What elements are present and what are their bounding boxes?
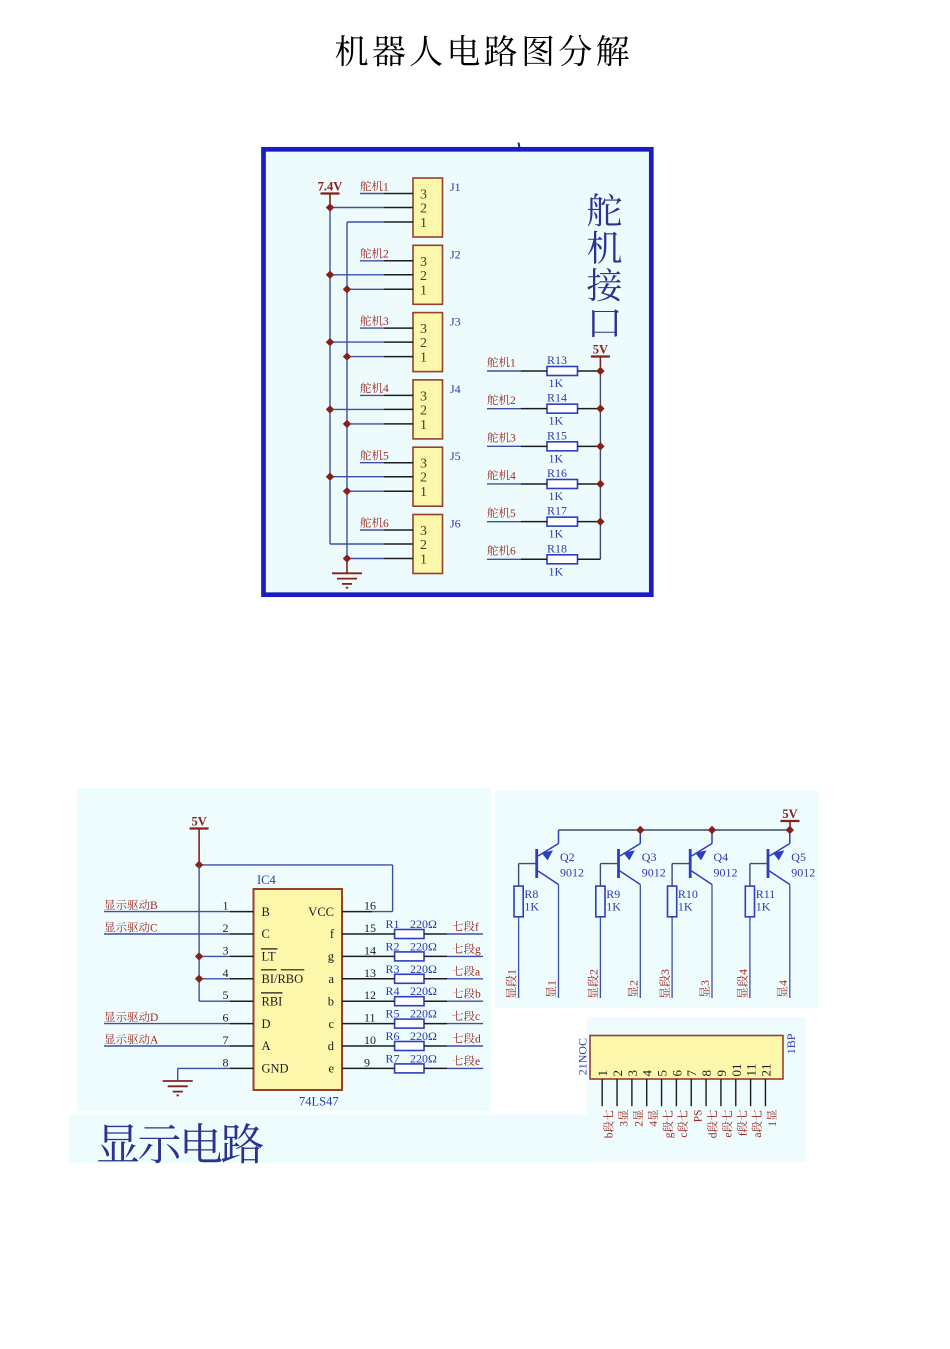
svg-text:1: 1 bbox=[420, 418, 427, 433]
svg-text:9012: 9012 bbox=[642, 866, 666, 880]
svg-text:GND: GND bbox=[262, 1062, 289, 1076]
label 显段2 bbox=[586, 969, 600, 998]
label 显示驱动C bbox=[105, 922, 158, 935]
wire rail to J2 pin2 bbox=[330, 274, 384, 276]
wire LT bbox=[199, 955, 230, 957]
label 舵机2 (net) bbox=[487, 394, 516, 407]
label R17 bbox=[547, 504, 567, 518]
svg-text:1: 1 bbox=[576, 1063, 590, 1069]
junction J2 pin2 bbox=[326, 271, 334, 279]
transistor Q5 bbox=[768, 830, 790, 885]
junction R13 rail bbox=[596, 367, 604, 375]
resistor R11 bbox=[745, 886, 754, 917]
IC4 pin stubs bbox=[230, 912, 372, 1069]
junction Q5 emitter bbox=[786, 826, 794, 834]
svg-text:Q2: Q2 bbox=[560, 850, 575, 864]
wire 七段g bbox=[447, 955, 483, 957]
junction BI/RBO bbox=[195, 975, 203, 983]
svg-text:S: S bbox=[693, 1109, 705, 1115]
svg-text:6: 6 bbox=[223, 1011, 229, 1025]
svg-text:1K: 1K bbox=[524, 900, 539, 914]
label 七段b bbox=[452, 988, 481, 1001]
svg-text:J4: J4 bbox=[450, 382, 461, 396]
label 显示驱动A bbox=[105, 1034, 159, 1047]
label 220Ω (R3) bbox=[410, 962, 437, 976]
label 七段e (PB1 pin 9) bbox=[722, 1110, 735, 1138]
power 7.4V bbox=[318, 180, 343, 194]
svg-text:BI/RBO: BI/RBO bbox=[262, 972, 304, 986]
svg-text:d: d bbox=[475, 1034, 481, 1046]
svg-text:3: 3 bbox=[420, 255, 427, 270]
svg-text:2: 2 bbox=[420, 269, 427, 284]
wire PB1 pin 11 bbox=[750, 1079, 752, 1106]
label 显示驱动D bbox=[105, 1011, 159, 1024]
svg-text:1: 1 bbox=[729, 1064, 744, 1071]
wire 舵机2 to R14 bbox=[487, 408, 521, 410]
svg-text:3: 3 bbox=[420, 389, 427, 404]
svg-text:1: 1 bbox=[383, 181, 389, 193]
label 1K (R18) bbox=[549, 564, 564, 578]
svg-text:e: e bbox=[475, 1056, 480, 1068]
svg-text:B: B bbox=[150, 900, 158, 912]
wire ground rail (servo) bbox=[346, 222, 348, 559]
label 七段c (PB1 pin 6) bbox=[677, 1110, 690, 1138]
junction R17 rail bbox=[596, 517, 604, 525]
wire 七段c bbox=[447, 1023, 483, 1025]
svg-text:2: 2 bbox=[420, 471, 427, 486]
label 显段1 bbox=[505, 969, 519, 998]
svg-text:1K: 1K bbox=[756, 900, 771, 914]
junction J2 pin1 bbox=[343, 285, 351, 293]
wire collector Q4 bbox=[711, 885, 713, 999]
svg-text:A: A bbox=[150, 1035, 159, 1047]
label 舵机接口 bbox=[587, 193, 621, 337]
wire base Q4 bbox=[672, 864, 690, 887]
connector PB1 body bbox=[590, 1036, 783, 1080]
svg-text:1: 1 bbox=[420, 216, 427, 231]
svg-text:J1: J1 bbox=[450, 180, 461, 194]
wire 七段a bbox=[447, 978, 483, 980]
wire 舵机2 to J2 pin3 bbox=[360, 260, 384, 262]
resistor R6 bbox=[372, 1042, 447, 1051]
svg-text:b: b bbox=[604, 1132, 616, 1138]
svg-text:J5: J5 bbox=[450, 449, 461, 463]
wire base Q3 bbox=[600, 864, 618, 887]
resistor R8 bbox=[514, 886, 523, 917]
svg-text:5: 5 bbox=[510, 508, 516, 520]
svg-text:220Ω: 220Ω bbox=[410, 1051, 437, 1065]
svg-text:Q4: Q4 bbox=[714, 850, 729, 864]
svg-text:VCC: VCC bbox=[308, 905, 334, 919]
wire emitter rail bbox=[559, 829, 791, 831]
junction Q3 emitter bbox=[636, 826, 644, 834]
svg-text:1: 1 bbox=[420, 485, 427, 500]
resistor R15 bbox=[521, 442, 600, 451]
svg-text:1K: 1K bbox=[678, 900, 693, 914]
label J5 bbox=[450, 449, 461, 463]
svg-text:9: 9 bbox=[714, 1070, 729, 1077]
label 显3 bbox=[698, 980, 712, 997]
label 显段4 bbox=[736, 969, 750, 998]
label 1K (R9) bbox=[606, 900, 621, 914]
ground (display) bbox=[163, 1081, 193, 1095]
wire base Q5 bbox=[750, 864, 768, 887]
svg-text:1: 1 bbox=[505, 969, 519, 975]
label J1 bbox=[450, 180, 461, 194]
wire 显段1 bbox=[518, 917, 520, 998]
svg-text:8: 8 bbox=[223, 1055, 229, 1069]
label 220Ω (R6) bbox=[410, 1029, 437, 1043]
svg-text:1: 1 bbox=[784, 1048, 798, 1054]
label 舵机2 (J2) bbox=[360, 248, 389, 261]
svg-text:1: 1 bbox=[545, 980, 559, 986]
wire 7.4V stub bbox=[329, 194, 331, 208]
label 舵机6 (net) bbox=[487, 545, 516, 558]
wire PB1 pin 2 bbox=[616, 1079, 618, 1106]
svg-text:4: 4 bbox=[648, 1121, 660, 1127]
label 显2 bbox=[626, 980, 640, 997]
label 舵机1 (J1) bbox=[360, 181, 389, 194]
svg-text:4: 4 bbox=[383, 383, 389, 395]
label 显2 (PB1 pin 3) bbox=[633, 1110, 645, 1127]
label R8 bbox=[524, 887, 538, 901]
power 5V (servo) bbox=[591, 343, 610, 357]
label 220Ω (R2) bbox=[410, 939, 437, 953]
svg-text:B: B bbox=[262, 905, 270, 919]
svg-text:O: O bbox=[576, 1046, 590, 1055]
label R14 bbox=[547, 391, 567, 405]
svg-text:D: D bbox=[262, 1017, 271, 1031]
label 9012 (Q2) bbox=[560, 866, 584, 880]
svg-text:g: g bbox=[663, 1132, 675, 1138]
wire gnd to J2 pin1 bbox=[347, 288, 384, 290]
svg-text:4: 4 bbox=[510, 470, 516, 482]
label 74LS47 bbox=[299, 1095, 339, 1109]
servo interface frame bbox=[264, 149, 652, 594]
label 七段d bbox=[452, 1033, 481, 1046]
svg-text:e: e bbox=[328, 1062, 334, 1076]
label 舵机6 (J6) bbox=[360, 517, 389, 530]
svg-text:R1: R1 bbox=[386, 917, 400, 931]
wire gnd to J1 pin1 bbox=[347, 221, 384, 223]
svg-text:5: 5 bbox=[383, 451, 389, 463]
svg-text:2: 2 bbox=[420, 336, 427, 351]
wire 5V rail (servo) bbox=[599, 371, 601, 559]
svg-text:R18: R18 bbox=[547, 541, 567, 555]
svg-text:2: 2 bbox=[576, 1069, 590, 1075]
wire PB1 pin 8 bbox=[705, 1079, 707, 1106]
transistor Q3 bbox=[619, 830, 641, 885]
label R10 bbox=[678, 887, 698, 901]
connector J3 bbox=[384, 313, 443, 372]
label 1K (R16) bbox=[549, 489, 564, 503]
svg-text:0: 0 bbox=[729, 1070, 744, 1077]
svg-text:9: 9 bbox=[364, 1055, 370, 1069]
label 七段d (PB1 pin 8) bbox=[707, 1110, 720, 1138]
svg-text:R3: R3 bbox=[386, 962, 400, 976]
svg-text:220Ω: 220Ω bbox=[410, 984, 437, 998]
label 显3 (PB1 pin 2) bbox=[618, 1110, 630, 1127]
label R16 bbox=[547, 466, 567, 480]
svg-text:2: 2 bbox=[420, 538, 427, 553]
wire 七段b bbox=[447, 1000, 483, 1002]
svg-text:2: 2 bbox=[626, 980, 640, 986]
tick mark top border bbox=[519, 143, 520, 149]
label 舵机3 (J3) bbox=[360, 315, 389, 328]
label 1K (R11) bbox=[756, 900, 771, 914]
wire gnd to J4 pin1 bbox=[347, 423, 384, 425]
svg-text:3: 3 bbox=[625, 1070, 640, 1077]
svg-text:1: 1 bbox=[744, 1070, 759, 1077]
svg-text:2: 2 bbox=[610, 1070, 625, 1077]
junction J4 pin1 bbox=[343, 420, 351, 428]
wire PB1 pin 9 bbox=[720, 1079, 722, 1106]
wire 舵机4 to J4 pin3 bbox=[360, 394, 384, 396]
label 显段3 bbox=[658, 969, 672, 998]
label R5 bbox=[386, 1007, 400, 1021]
svg-text:d: d bbox=[328, 1039, 335, 1053]
svg-text:1K: 1K bbox=[549, 564, 564, 578]
wire PB1 pin 3 bbox=[631, 1079, 633, 1106]
svg-text:3: 3 bbox=[510, 433, 516, 445]
junction J5 pin1 bbox=[343, 487, 351, 495]
label Q3 bbox=[642, 850, 657, 864]
wire gnd to J3 pin1 bbox=[347, 356, 384, 358]
svg-text:Q3: Q3 bbox=[642, 850, 657, 864]
label 七段e bbox=[452, 1055, 480, 1068]
svg-text:2: 2 bbox=[420, 403, 427, 418]
label 显4 bbox=[776, 980, 790, 997]
svg-text:J2: J2 bbox=[450, 247, 461, 261]
label 显示电路 bbox=[98, 1123, 263, 1163]
resistor R7 bbox=[372, 1064, 447, 1073]
svg-text:220Ω: 220Ω bbox=[410, 917, 437, 931]
label R6 bbox=[386, 1029, 400, 1043]
wire rail to J4 pin2 bbox=[330, 408, 384, 410]
junction R16 rail bbox=[596, 480, 604, 488]
svg-text:4: 4 bbox=[776, 980, 790, 986]
junction R14 rail bbox=[596, 404, 604, 412]
label 七段a (PB1 pin 11) bbox=[751, 1110, 764, 1138]
svg-text:3: 3 bbox=[619, 1121, 631, 1127]
wire PB1 pin 4 bbox=[646, 1079, 648, 1106]
connector J5 bbox=[384, 447, 443, 506]
svg-text:B: B bbox=[784, 1040, 798, 1048]
wire 舵机3 to R15 bbox=[487, 445, 521, 447]
svg-text:R7: R7 bbox=[386, 1051, 400, 1065]
svg-text:5V: 5V bbox=[782, 807, 797, 821]
wire gnd to J6 pin1 bbox=[347, 558, 384, 560]
resistor R9 bbox=[596, 886, 605, 917]
svg-text:16: 16 bbox=[364, 899, 376, 913]
power 5V (transistors) bbox=[781, 807, 800, 821]
svg-text:a: a bbox=[328, 972, 334, 986]
ground (servo) bbox=[332, 573, 362, 587]
label 七段g bbox=[452, 943, 481, 956]
transistor Q2 bbox=[537, 830, 559, 885]
label 9012 (Q3) bbox=[642, 866, 666, 880]
connector J1 bbox=[384, 178, 443, 237]
label 七段g (PB1 pin 5) bbox=[662, 1110, 675, 1138]
svg-text:9012: 9012 bbox=[714, 866, 738, 880]
wire 显示驱动A bbox=[104, 1045, 230, 1047]
svg-text:4: 4 bbox=[223, 966, 229, 980]
wire 5V stub (display) bbox=[198, 829, 200, 865]
wire 显段3 bbox=[671, 917, 673, 998]
label 1K (R13) bbox=[549, 376, 564, 390]
svg-text:c: c bbox=[475, 1011, 480, 1023]
label 1K (R8) bbox=[524, 900, 539, 914]
label R1 bbox=[386, 917, 400, 931]
svg-text:R4: R4 bbox=[386, 984, 400, 998]
svg-text:4: 4 bbox=[640, 1070, 655, 1077]
power 5V (display) bbox=[190, 815, 209, 829]
junction LT bbox=[195, 952, 203, 960]
resistor R13 bbox=[521, 367, 600, 376]
label 1K (R10) bbox=[678, 900, 693, 914]
wire PB1 pin 1 bbox=[601, 1079, 603, 1106]
wire 七段f bbox=[447, 933, 483, 935]
wire collector Q5 bbox=[789, 885, 791, 999]
wire 舵机4 to R16 bbox=[487, 483, 521, 485]
wire 显示驱动B bbox=[104, 911, 230, 913]
svg-text:3: 3 bbox=[420, 188, 427, 203]
label Q2 bbox=[560, 850, 575, 864]
wire ground stub (servo) bbox=[346, 559, 348, 574]
wire 舵机1 to R13 bbox=[487, 370, 521, 372]
transistor panel background bbox=[495, 791, 819, 1008]
label 220Ω (R7) bbox=[410, 1051, 437, 1065]
wire 舵机5 to J5 pin3 bbox=[360, 462, 384, 464]
label J2 bbox=[450, 247, 461, 261]
junction J4 pin2 bbox=[326, 405, 334, 413]
label 舵机4 (J4) bbox=[360, 383, 389, 396]
svg-text:1: 1 bbox=[420, 351, 427, 366]
svg-text:6: 6 bbox=[383, 518, 389, 530]
svg-text:R17: R17 bbox=[547, 504, 567, 518]
svg-text:J3: J3 bbox=[450, 315, 461, 329]
label R18 bbox=[547, 541, 567, 555]
svg-text:1K: 1K bbox=[549, 414, 564, 428]
wire 舵机6 to J6 pin3 bbox=[360, 529, 384, 531]
svg-text:RBI: RBI bbox=[262, 994, 283, 1008]
resistor R4 bbox=[372, 997, 447, 1006]
label 显4 (PB1 pin 4) bbox=[648, 1110, 660, 1127]
label 220Ω (R5) bbox=[410, 1007, 437, 1021]
svg-text:3: 3 bbox=[420, 322, 427, 337]
svg-text:1K: 1K bbox=[549, 489, 564, 503]
junction 5V rail (display) bbox=[195, 861, 203, 869]
resistor R14 bbox=[521, 404, 600, 413]
wire PB1 pin 7 bbox=[690, 1079, 692, 1106]
svg-text:a: a bbox=[752, 1132, 764, 1137]
svg-text:12: 12 bbox=[364, 988, 376, 1002]
svg-text:2: 2 bbox=[383, 249, 389, 261]
display panel background bbox=[77, 788, 491, 1111]
label 1K (R15) bbox=[549, 451, 564, 465]
wire 舵机6 to R18 bbox=[487, 558, 521, 560]
svg-text:D: D bbox=[150, 1012, 158, 1024]
wire 5V stub (transistors) bbox=[789, 821, 791, 830]
svg-text:d: d bbox=[708, 1132, 720, 1138]
label J6 bbox=[450, 517, 461, 531]
label IC4 bbox=[257, 873, 277, 887]
wire PB1 pin 12 bbox=[764, 1079, 766, 1106]
svg-text:15: 15 bbox=[364, 921, 376, 935]
label R15 bbox=[547, 428, 567, 442]
label 舵机3 (net) bbox=[487, 432, 516, 445]
wire BI/RBO bbox=[199, 978, 230, 980]
svg-text:e: e bbox=[722, 1132, 734, 1137]
svg-text:2: 2 bbox=[510, 395, 516, 407]
label 显1 bbox=[545, 980, 559, 997]
svg-text:7: 7 bbox=[684, 1070, 699, 1077]
label 显示驱动B bbox=[105, 899, 158, 912]
svg-text:2: 2 bbox=[223, 921, 229, 935]
svg-text:R2: R2 bbox=[386, 939, 400, 953]
label 1K (R17) bbox=[549, 527, 564, 541]
svg-text:1: 1 bbox=[223, 899, 229, 913]
junction J5 pin2 bbox=[326, 473, 334, 481]
label 220Ω (R4) bbox=[410, 984, 437, 998]
label 舵机5 (net) bbox=[487, 507, 516, 520]
svg-text:C: C bbox=[576, 1038, 590, 1046]
wire PB1 pin 10 bbox=[735, 1079, 737, 1106]
label J4 bbox=[450, 382, 461, 396]
svg-text:2: 2 bbox=[758, 1070, 773, 1077]
svg-text:LT: LT bbox=[262, 950, 276, 964]
junction R15 rail bbox=[596, 442, 604, 450]
svg-text:9012: 9012 bbox=[560, 866, 584, 880]
svg-text:74LS47: 74LS47 bbox=[299, 1095, 339, 1109]
label SP (PB1 pin 7) bbox=[693, 1109, 705, 1122]
resistor R17 bbox=[521, 517, 600, 526]
svg-text:4: 4 bbox=[736, 969, 750, 975]
svg-text:P: P bbox=[693, 1116, 705, 1122]
svg-text:g: g bbox=[475, 944, 481, 956]
svg-text:R14: R14 bbox=[547, 391, 567, 405]
label PB1 bbox=[784, 1033, 798, 1054]
connector J4 bbox=[384, 380, 443, 439]
svg-text:R15: R15 bbox=[547, 428, 567, 442]
svg-text:5: 5 bbox=[223, 988, 229, 1002]
label R11 bbox=[756, 887, 776, 901]
wire rail to J1 pin2 bbox=[330, 207, 384, 209]
wire 七段e bbox=[447, 1067, 483, 1069]
label R4 bbox=[386, 984, 400, 998]
label Q5 bbox=[791, 850, 806, 864]
svg-text:220Ω: 220Ω bbox=[410, 1029, 437, 1043]
svg-text:3: 3 bbox=[420, 524, 427, 539]
wire 舵机3 to J3 pin3 bbox=[360, 327, 384, 329]
svg-text:2: 2 bbox=[633, 1121, 645, 1127]
wire 舵机1 to J1 pin3 bbox=[360, 193, 384, 195]
svg-text:g: g bbox=[328, 950, 335, 964]
connector J2 bbox=[384, 245, 443, 304]
label 舵机5 (J5) bbox=[360, 450, 389, 463]
resistor R16 bbox=[521, 479, 600, 488]
wire 显示驱动C bbox=[104, 933, 230, 935]
IC4 overbars bbox=[261, 949, 304, 993]
label 9012 (Q4) bbox=[714, 866, 738, 880]
label R7 bbox=[386, 1051, 400, 1065]
label 220Ω (R1) bbox=[410, 917, 437, 931]
svg-text:220Ω: 220Ω bbox=[410, 1007, 437, 1021]
svg-text:J6: J6 bbox=[450, 517, 461, 531]
wire GND (display) bbox=[178, 1068, 230, 1081]
svg-text:C: C bbox=[262, 927, 270, 941]
svg-text:3: 3 bbox=[698, 980, 712, 986]
